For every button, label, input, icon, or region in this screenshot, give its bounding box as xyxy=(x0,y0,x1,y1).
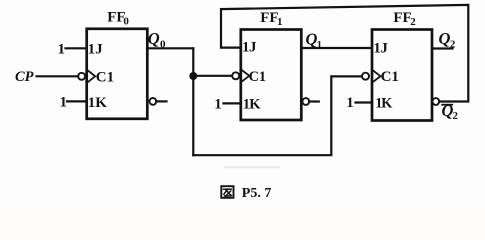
inversion bubble FF0 C1 xyxy=(78,73,85,80)
svg-text:1J: 1J xyxy=(242,40,257,56)
wire CP to FF0 C1 xyxy=(37,75,79,77)
junction dot node A xyxy=(189,72,197,80)
inversion bubble FF1 C1 xyxy=(232,72,239,79)
label Q-bar-2 xyxy=(441,101,458,122)
svg-text:FF: FF xyxy=(393,10,411,26)
inversion bubble FF2 C1 xyxy=(362,73,369,80)
label FF2 xyxy=(393,10,416,28)
wire 1 to FF1 1K xyxy=(224,102,241,104)
svg-text:Q: Q xyxy=(148,29,160,48)
svg-text:1J: 1J xyxy=(373,41,388,57)
svg-text:0: 0 xyxy=(123,15,129,27)
svg-text:FF: FF xyxy=(260,10,278,26)
inversion bubble FF2 Q-bar output xyxy=(432,98,439,105)
faint scan smudge xyxy=(224,166,280,168)
svg-text:P5. 7: P5. 7 xyxy=(242,186,272,201)
svg-text:C1: C1 xyxy=(96,69,114,85)
svg-text:1K: 1K xyxy=(375,95,392,111)
clock edge wedge (FF0 C1) xyxy=(88,71,95,83)
label FF1 xyxy=(260,10,282,28)
svg-text:C1: C1 xyxy=(381,69,399,85)
svg-text:C1: C1 xyxy=(249,69,266,85)
wire node A to FF1 C1 xyxy=(193,75,232,77)
wire 1 to FF0 1J xyxy=(66,47,87,49)
svg-text:1: 1 xyxy=(58,42,66,58)
clock edge wedge (FF1 C1) xyxy=(242,70,249,81)
stub wire FF2 Q2 output xyxy=(432,47,452,49)
flip-flop FF2 box xyxy=(372,30,432,121)
stub wire FF1 Q-bar xyxy=(309,100,319,102)
inversion bubble FF0 Q-bar output xyxy=(150,98,157,105)
svg-text:1J: 1J xyxy=(88,42,104,58)
svg-text:1: 1 xyxy=(317,40,322,51)
label FF0 xyxy=(107,9,129,27)
wire FF2 Q-bar feedback to FF1 1J xyxy=(221,5,468,102)
wire 1 to FF2 1K xyxy=(356,101,372,103)
svg-text:2: 2 xyxy=(410,16,416,28)
clock edge wedge (FF2 C1) xyxy=(373,71,380,82)
wire node A vertical (Q0 down) xyxy=(192,48,194,155)
wire 1 to FF0 1K xyxy=(67,100,86,102)
label Q0 xyxy=(148,29,166,50)
label Q1 xyxy=(306,30,323,51)
inversion bubble FF1 Q-bar output xyxy=(302,98,309,105)
svg-text:1: 1 xyxy=(214,97,222,113)
svg-text:2: 2 xyxy=(453,111,458,122)
svg-text:1: 1 xyxy=(60,95,68,111)
svg-text:1K: 1K xyxy=(243,97,261,113)
flip-flop FF0 box xyxy=(87,29,148,119)
svg-text:Q: Q xyxy=(306,30,318,49)
flip-flop FF1 box xyxy=(241,30,301,121)
svg-text:CP: CP xyxy=(15,69,34,85)
label Q2 xyxy=(439,29,456,50)
caption glyph TU (Chinese char for figure) xyxy=(221,186,233,198)
svg-text:Q: Q xyxy=(439,29,451,48)
wire FF1 Q1 output to FF2 1J xyxy=(302,47,371,49)
svg-text:1: 1 xyxy=(346,95,354,111)
wire Q0 bottom run to FF2 C1 xyxy=(193,76,362,155)
svg-text:1: 1 xyxy=(277,16,283,28)
wire FF0 Q0 output to node A xyxy=(148,47,193,49)
stub wire FF0 Q-bar xyxy=(156,100,166,102)
svg-text:1K: 1K xyxy=(88,95,108,111)
